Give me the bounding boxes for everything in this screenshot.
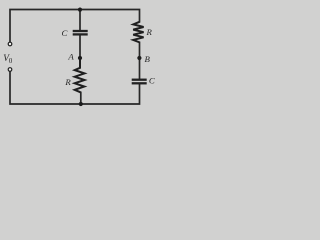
wire bottom rail with left and right risers [10, 71, 140, 104]
terminal (upper V0 port) [8, 42, 12, 46]
wire middle branch resistor bottom segment [80, 92, 82, 104]
wire middle branch cap-to-A segment [79, 36, 81, 59]
svg-text:A: A [67, 52, 74, 62]
wire top rail with left and right drops [10, 10, 140, 43]
svg-text:R: R [64, 77, 71, 87]
resistor R2 (right branch) [133, 22, 143, 43]
terminal (lower V0 port) [8, 68, 12, 72]
svg-text:B: B [145, 54, 151, 64]
junction (top, middle branch to top rail) [78, 8, 82, 12]
node A [78, 56, 82, 60]
capacitor C2 (right branch) [132, 80, 147, 84]
svg-text:C: C [149, 75, 155, 85]
node B [137, 56, 141, 60]
svg-text:R: R [146, 27, 153, 37]
resistor R1 (middle branch) [75, 58, 85, 92]
junction (bottom, middle branch to bottom rail) [79, 102, 83, 106]
wire middle branch upper segment [79, 10, 81, 31]
capacitor C1 (middle branch) [73, 31, 88, 34]
svg-text:C: C [61, 28, 67, 38]
wire right branch B segment [139, 43, 141, 79]
